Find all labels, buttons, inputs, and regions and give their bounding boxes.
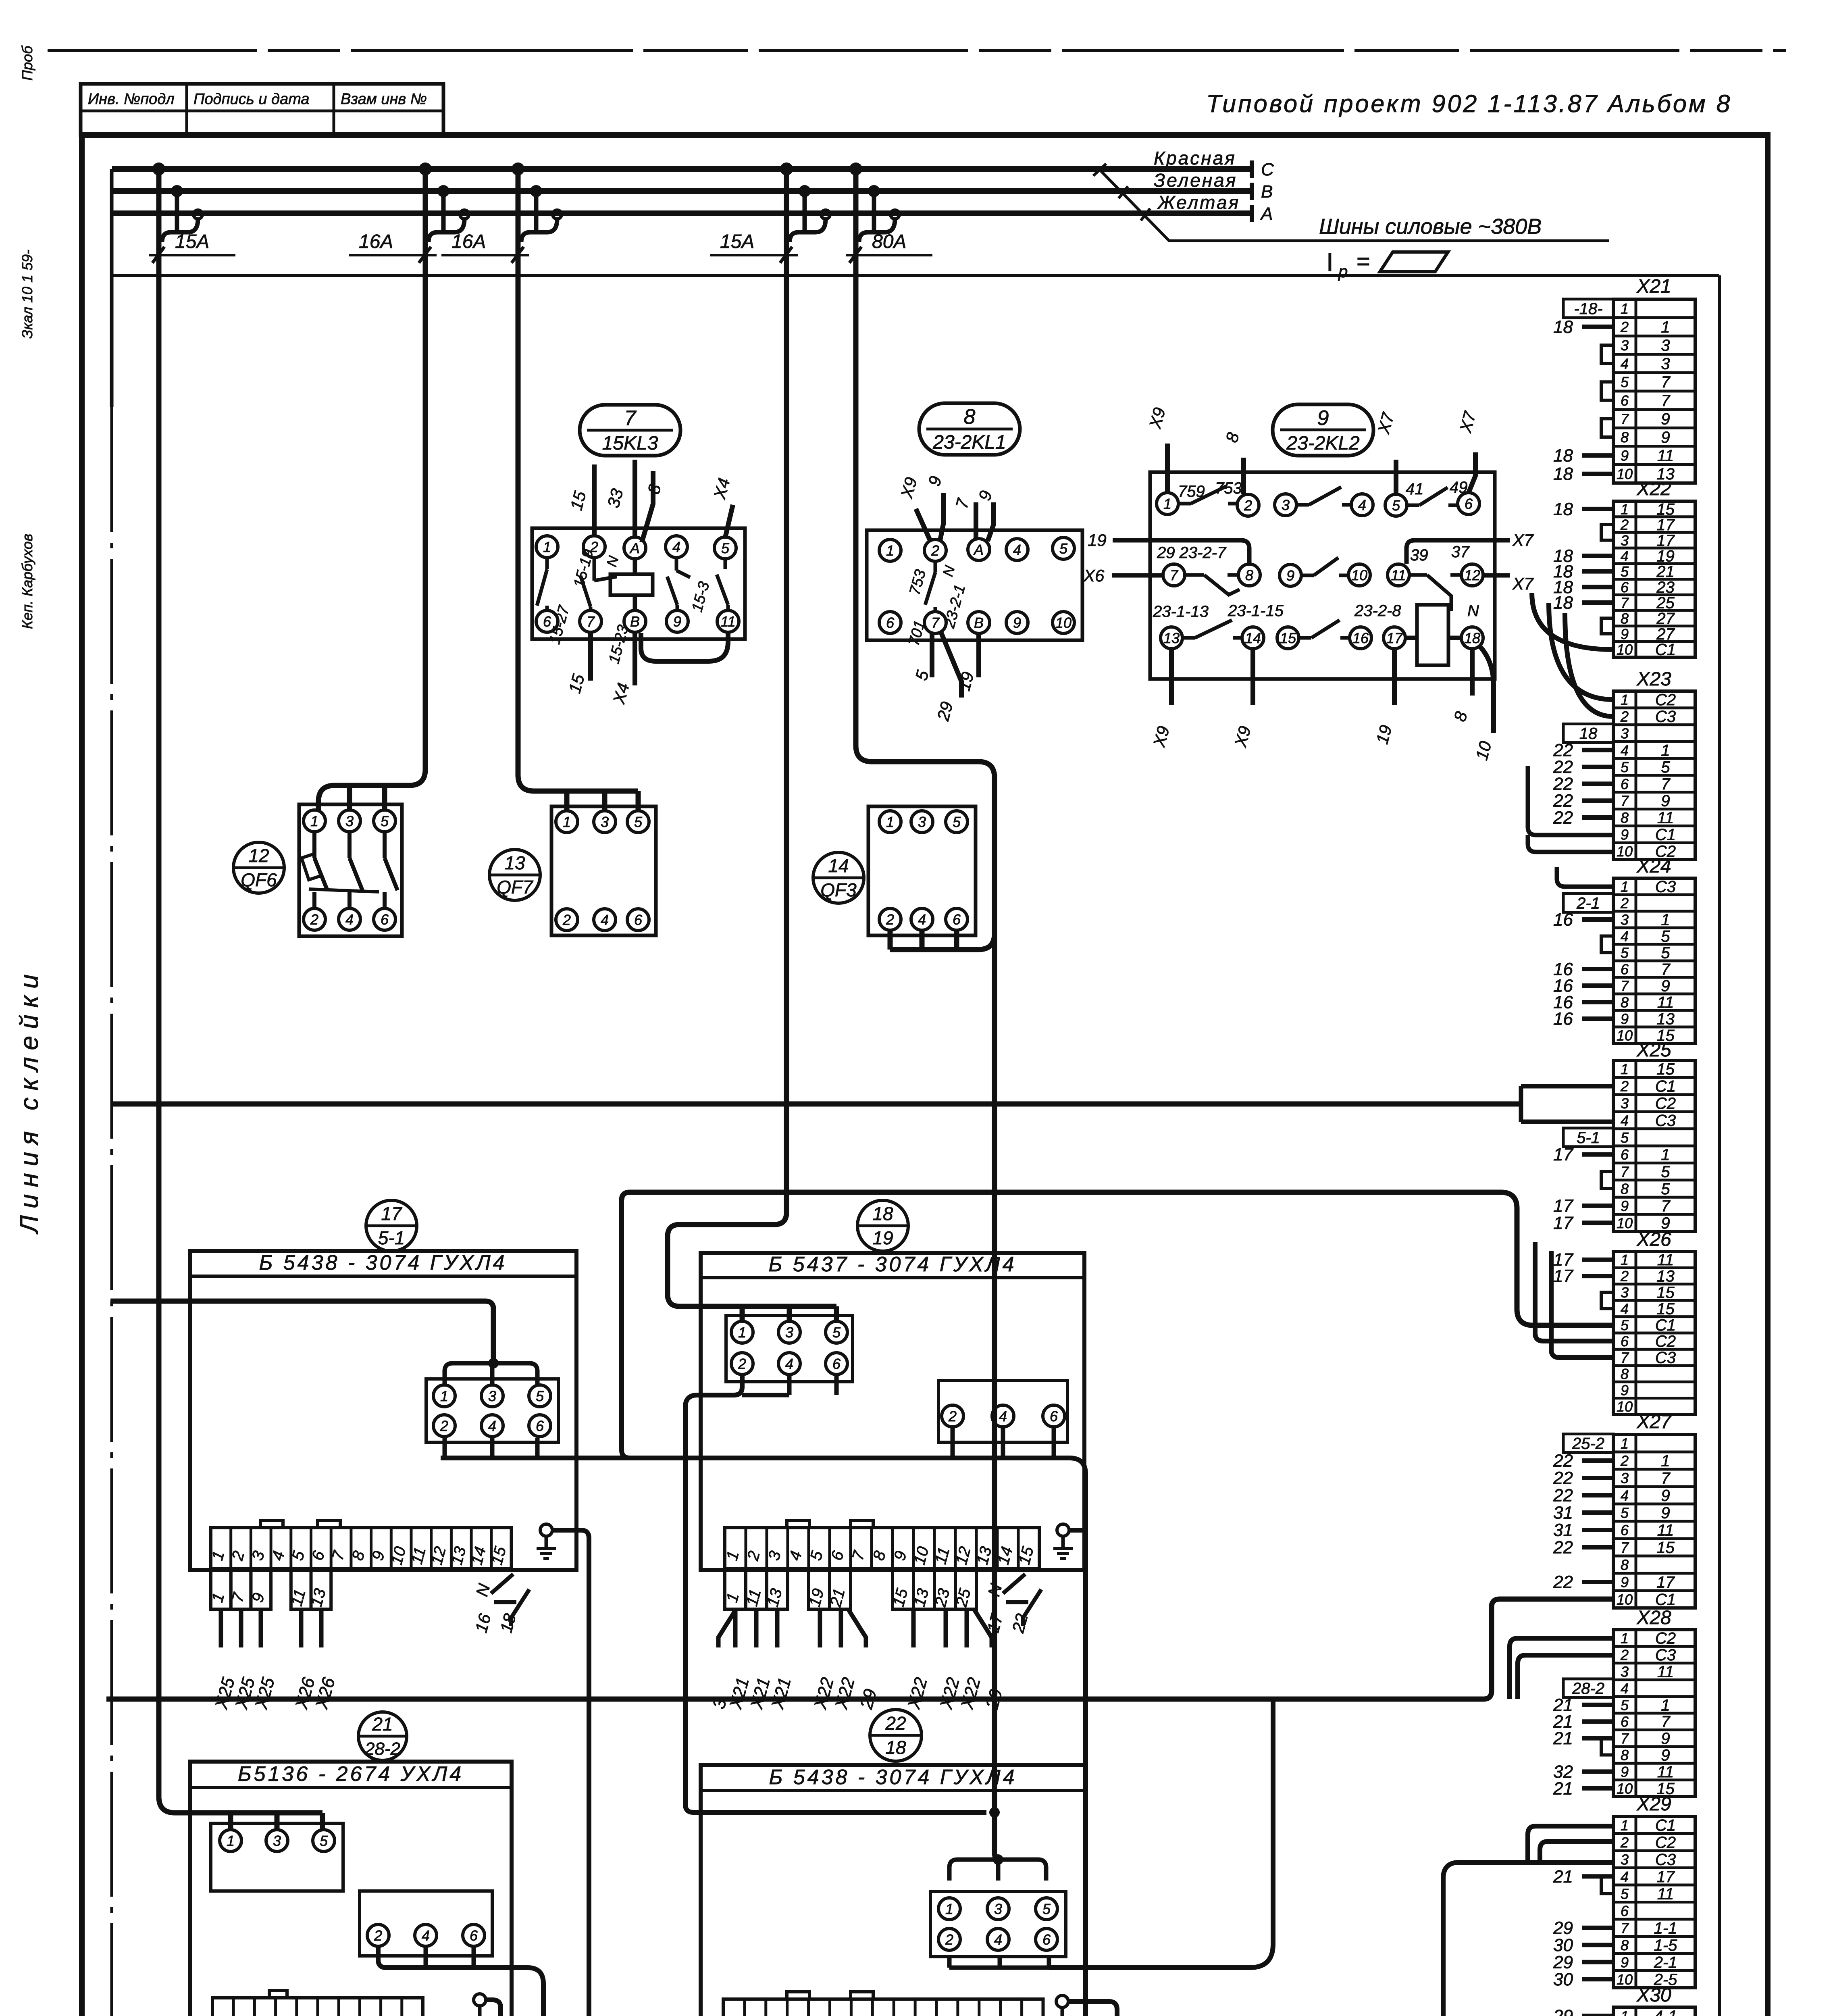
svg-text:9: 9: [1621, 826, 1629, 843]
svg-text:21: 21: [1553, 1867, 1573, 1887]
circuit breaker QF6 pin 6: [374, 908, 395, 930]
svg-text:2: 2: [1620, 516, 1629, 533]
circuit breaker QF6 pin 3: [339, 810, 360, 832]
svg-text:5: 5: [381, 813, 389, 829]
unit A17 designator 17/5-1: [366, 1200, 417, 1251]
svg-text:6: 6: [1621, 961, 1629, 978]
svg-text:16А: 16А: [451, 231, 486, 252]
svg-text:8: 8: [964, 405, 976, 429]
terminal strip Х29 stub 29 pin 9: [1553, 1952, 1613, 1972]
svg-text:4-1: 4-1: [1654, 2008, 1677, 2016]
svg-text:4: 4: [1621, 742, 1629, 758]
relay K7 wire 11 to B: [641, 632, 728, 661]
wire X24 C3 hook: [1557, 867, 1613, 887]
svg-text:-18-: -18-: [1574, 300, 1602, 318]
svg-text:10: 10: [1617, 1971, 1633, 1988]
terminal strip Х24 boxed label 2-1: [1563, 894, 1613, 912]
relay K8 pin 2: [924, 539, 946, 561]
relay K7 pin A: [624, 537, 646, 559]
svg-text:Х29: Х29: [1636, 1793, 1671, 1815]
unit A21 connector 2: [360, 1891, 492, 1956]
svg-text:8: 8: [1621, 994, 1629, 1011]
label Шины силовые 380В: [1319, 215, 1542, 239]
svg-text:15: 15: [1656, 500, 1675, 518]
relay K9 contact 11-12: [1409, 575, 1461, 611]
relay K7 pin B: [624, 610, 646, 632]
circuit breaker QF6 pin 1: [304, 810, 325, 832]
svg-text:11: 11: [1657, 447, 1674, 465]
svg-text:11: 11: [1657, 994, 1674, 1012]
stamp table Инв/Подпись/Взам: [81, 84, 443, 135]
unit A22 terminal strip: [722, 1999, 1043, 2016]
svg-text:4: 4: [672, 539, 680, 555]
svg-text:3: 3: [1621, 1664, 1629, 1680]
relay K7 pin 2: [583, 536, 605, 558]
svg-text:4: 4: [422, 1927, 430, 1944]
ground A18: [1053, 1524, 1073, 1558]
svg-text:11: 11: [720, 613, 735, 630]
terminal strip Х23 stub 22 pin 6: [1553, 774, 1613, 794]
relay K8 wire X9 up: [897, 475, 930, 541]
circuit breaker QF3 pin 1: [879, 811, 901, 833]
svg-text:3: 3: [1621, 337, 1629, 354]
wire drop 15A to QF6 feed: [318, 169, 425, 811]
svg-text:17: 17: [1656, 1574, 1675, 1591]
terminal strip Х27 label: [1636, 1411, 1672, 1433]
svg-text:5: 5: [1621, 374, 1629, 390]
svg-text:13: 13: [504, 852, 525, 873]
circuit breaker QF7 pin 5: [627, 811, 649, 833]
svg-text:12: 12: [248, 845, 269, 866]
svg-text:8: 8: [1621, 810, 1629, 826]
wire drop 16A to QF7 feed: [518, 169, 638, 811]
unit A18 designator 18/19: [857, 1200, 908, 1251]
unit A18 terminal strip: [723, 1528, 1039, 1568]
svg-text:10: 10: [1617, 641, 1633, 658]
svg-text:1: 1: [1621, 1630, 1629, 1647]
svg-text:18: 18: [1579, 725, 1598, 743]
svg-text:4: 4: [1621, 1680, 1629, 1697]
relay K7 wire 8 up: [642, 471, 665, 542]
circuit breaker QF6 body: [299, 804, 402, 936]
svg-text:4: 4: [1621, 1868, 1629, 1885]
wire to X28 C2 C3: [1510, 1638, 1613, 1699]
relay K7 label 15-23: [605, 623, 632, 666]
terminal strip Х24 jumper 4-5: [1601, 936, 1613, 953]
bus C (Красная): [112, 160, 1274, 179]
terminal strip Х25 stub 17 pin 9: [1553, 1196, 1613, 1216]
relay K9 pin 10: [1348, 564, 1370, 586]
unit A18 strip sub-cell 1: [723, 1568, 746, 1609]
wire bus C1 row full width: [110, 1102, 1521, 1107]
relay K9 pin 2: [1237, 494, 1259, 516]
unit A18 strip sub-cell 13: [911, 1568, 934, 1609]
svg-text:6: 6: [634, 912, 643, 928]
terminal strip Х29 table: [1613, 1816, 1695, 1989]
svg-text:19: 19: [1088, 531, 1107, 550]
relay K9 wire X7 pin5 up: [1374, 410, 1398, 494]
unit A18 strip jumper 4: [787, 1520, 809, 1528]
svg-text:16: 16: [1352, 630, 1369, 646]
relay K9 pin 6: [1458, 493, 1479, 514]
svg-text:1: 1: [563, 814, 571, 830]
svg-text:7: 7: [1170, 567, 1179, 583]
relay K9 contact 1-2: [1178, 486, 1237, 504]
relay K9 contact 7-8: [1185, 575, 1240, 595]
svg-text:=: =: [1357, 248, 1370, 275]
svg-text:25: 25: [1656, 594, 1675, 612]
svg-text:10: 10: [1617, 1780, 1633, 1797]
svg-text:17: 17: [1553, 1266, 1573, 1286]
svg-text:6: 6: [1621, 1522, 1629, 1539]
margin note Кеп: [19, 534, 35, 629]
margin note Проб: [19, 45, 35, 81]
circuit breaker QF6 pin 5: [374, 810, 395, 832]
svg-text:Зкал 10 1 59-: Зкал 10 1 59-: [19, 250, 35, 339]
terminal strip Х26 jumper 3-4: [1601, 1292, 1613, 1308]
svg-text:2: 2: [1620, 708, 1629, 725]
svg-text:1: 1: [1621, 1817, 1629, 1833]
unit A17 N wires: [472, 1574, 529, 1626]
svg-text:5: 5: [1661, 1180, 1670, 1198]
svg-text:2: 2: [931, 542, 939, 559]
svg-text:15А: 15А: [175, 231, 209, 252]
svg-text:1: 1: [1621, 1061, 1629, 1077]
svg-text:13: 13: [1656, 1010, 1675, 1028]
unit A17 strip jumper 6-7: [318, 1520, 340, 1528]
svg-text:4: 4: [1621, 548, 1629, 564]
unit A17 wire to Х25: [251, 1609, 279, 1712]
relay K9 label 753: [1215, 479, 1242, 497]
relay K7 pin 11: [717, 610, 739, 632]
svg-text:1: 1: [227, 1833, 235, 1849]
svg-text:1: 1: [1661, 1452, 1670, 1470]
unit A17 connector output bundle: [445, 1438, 537, 1458]
unit A18 title Б 5437 - 3074 ГУХЛ4: [701, 1253, 1084, 1278]
relay K9 pin 13: [1161, 627, 1182, 649]
terminal strip Х26 stub 17 pin 1: [1553, 1250, 1613, 1270]
svg-text:5: 5: [1621, 1505, 1629, 1521]
svg-text:Б 5438 - 3074 ГУХЛ4: Б 5438 - 3074 ГУХЛ4: [769, 1766, 1017, 1789]
svg-text:27: 27: [1656, 610, 1675, 627]
svg-text:2: 2: [440, 1418, 448, 1434]
relay K9 pin 18: [1461, 627, 1483, 649]
svg-text:9: 9: [1661, 1504, 1670, 1522]
relay K8 wire 29 down diagonal: [933, 633, 961, 723]
wire to X26 C2: [1535, 1242, 1613, 1341]
svg-text:17: 17: [1656, 516, 1675, 534]
svg-text:6: 6: [953, 911, 961, 928]
relay K8 pin 1: [879, 539, 901, 561]
fold line линия склейки: [110, 169, 114, 2016]
terminal strip Х27 stub 22 pin 4: [1553, 1486, 1613, 1506]
unit A17 strip sub-cell 11: [287, 1568, 311, 1609]
svg-text:5: 5: [953, 814, 961, 830]
fold label Линия склейки: [15, 967, 44, 1235]
svg-text:1: 1: [1661, 318, 1670, 336]
relay K9 label 39: [1410, 546, 1428, 564]
svg-text:Взам инв №: Взам инв №: [341, 91, 427, 108]
terminal strip Х22 stub 18 pin 1: [1553, 499, 1613, 519]
svg-text:10: 10: [1617, 1027, 1633, 1044]
svg-text:5: 5: [1621, 1697, 1629, 1713]
svg-text:9: 9: [1661, 410, 1670, 428]
svg-text:8: 8: [1621, 1366, 1629, 1382]
svg-text:22: 22: [1553, 808, 1573, 828]
svg-text:С2: С2: [1655, 1333, 1676, 1350]
terminal strip Х30 label: [1636, 1985, 1671, 2006]
terminal strip Х27 table: [1613, 1435, 1695, 1609]
unit A18 wire to 29: [848, 1609, 880, 1712]
relay K9 pin 5: [1385, 494, 1407, 516]
svg-text:Красная: Красная: [1154, 148, 1236, 169]
wire feed unit A22 from QF3: [989, 778, 1000, 1860]
svg-text:5: 5: [1661, 944, 1670, 962]
relay K9 label 29 23-2-7: [1157, 544, 1227, 562]
svg-text:6: 6: [1621, 1146, 1629, 1163]
svg-text:7: 7: [1661, 775, 1671, 793]
terminal strip Х21 table: [1613, 299, 1695, 483]
terminal strip Х21 stub 18 pin 9: [1553, 446, 1613, 466]
svg-text:С2: С2: [1655, 1630, 1676, 1647]
svg-text:5: 5: [1621, 759, 1629, 775]
svg-text:С1: С1: [1655, 826, 1676, 843]
circuit breaker QF3 pin 3: [911, 811, 933, 833]
svg-text:18: 18: [1553, 499, 1573, 519]
terminal strip Х29 stub 30 pin 10: [1553, 1970, 1613, 1989]
svg-text:3: 3: [1282, 497, 1290, 513]
svg-text:9: 9: [673, 613, 681, 630]
svg-text:7: 7: [1621, 1164, 1629, 1180]
unit A17 wire to Х26: [312, 1609, 339, 1712]
terminal strip Х27 stub 22 pin 3: [1553, 1468, 1613, 1488]
svg-text:3: 3: [785, 1324, 793, 1341]
unit A21 terminal strip: [211, 1998, 423, 2016]
relay K9 label 23-1-15: [1228, 602, 1284, 620]
wire feed unit A17: [110, 1301, 493, 1363]
relay K7 wire 33 up: [603, 460, 635, 537]
unit A18 wire to Х21: [768, 1609, 795, 1712]
svg-text:11: 11: [1657, 809, 1674, 827]
svg-text:6: 6: [1621, 579, 1629, 596]
svg-text:7: 7: [1621, 978, 1629, 994]
unit A18 connector 2 output bundle: [953, 1427, 1054, 1458]
svg-text:2: 2: [1620, 1078, 1629, 1095]
svg-text:С1: С1: [1655, 1078, 1676, 1095]
svg-text:5: 5: [1621, 945, 1629, 961]
terminal strip Х26 stub 17 pin 2: [1553, 1266, 1613, 1286]
svg-text:С3: С3: [1655, 1646, 1676, 1664]
terminal strip Х22 table: [1613, 500, 1695, 658]
relay K8 pin 5: [1053, 537, 1074, 559]
svg-text:15KL3: 15KL3: [602, 433, 658, 454]
svg-text:С1: С1: [1655, 1316, 1676, 1334]
relay K9 label 23-1-13: [1153, 603, 1209, 621]
relay K9 coil: [1405, 605, 1461, 665]
svg-text:Линия склейки: Линия склейки: [15, 967, 44, 1235]
svg-text:9: 9: [1661, 1747, 1670, 1764]
bus B (Зеленая): [112, 182, 1273, 202]
relay K9 label N: [1467, 602, 1479, 620]
relay K7 wire X4 up right: [710, 476, 734, 537]
svg-text:Б 5437 - 3074 ГУХЛ4: Б 5437 - 3074 ГУХЛ4: [768, 1253, 1016, 1276]
svg-text:6: 6: [1050, 1408, 1058, 1425]
terminal strip Х22 stub 18 pin 4: [1553, 546, 1613, 566]
svg-text:11: 11: [1657, 1251, 1674, 1269]
svg-text:7: 7: [931, 614, 940, 631]
svg-text:80А: 80А: [872, 231, 906, 252]
svg-text:25-2: 25-2: [1572, 1435, 1604, 1453]
relay K7 contact 5-11: [717, 559, 728, 610]
svg-text:Х23: Х23: [1636, 669, 1671, 690]
circuit breaker QF3 pin 4: [911, 908, 933, 930]
svg-text:9: 9: [1621, 1764, 1629, 1780]
svg-text:4: 4: [1621, 928, 1629, 945]
relay K8 wire 9b up: [975, 489, 995, 541]
svg-text:21: 21: [1553, 1779, 1573, 1798]
relay K9 contact 13-14: [1182, 620, 1242, 638]
relay K9 pin 9: [1280, 564, 1301, 586]
relay K9 contact 9-10: [1301, 558, 1348, 575]
fuse tap 15А at x1951: [710, 162, 830, 263]
svg-text:Проб: Проб: [19, 45, 35, 81]
svg-text:С3: С3: [1655, 1851, 1676, 1868]
relay K8 pin B: [968, 612, 990, 633]
relay K9 label 37: [1451, 543, 1470, 561]
svg-text:5: 5: [1621, 1317, 1629, 1333]
svg-text:6: 6: [1042, 1931, 1051, 1948]
unit A17 strip sub-cell 13: [308, 1568, 331, 1609]
relay K9 contact 3-4: [1296, 487, 1351, 505]
svg-text:3: 3: [1621, 1284, 1629, 1301]
svg-text:С1: С1: [1655, 1816, 1676, 1834]
svg-text:14: 14: [1245, 630, 1261, 646]
svg-text:30: 30: [1553, 1970, 1573, 1989]
svg-text:3: 3: [488, 1388, 496, 1404]
relay K9 wire 8 pin18 down: [1450, 649, 1472, 723]
terminal strip Х30 table: [1613, 2007, 1695, 2016]
svg-text:2: 2: [1620, 895, 1629, 912]
terminal strip Х28 stub 32 pin 9: [1553, 1762, 1613, 1782]
terminal strip Х28 stub 21 pin 7: [1553, 1729, 1613, 1748]
svg-text:23-1-15: 23-1-15: [1228, 602, 1284, 620]
terminal strip Х21 jumper 3-4: [1601, 345, 1613, 364]
svg-text:5: 5: [1042, 1901, 1051, 1917]
svg-text:17: 17: [1656, 1868, 1675, 1886]
svg-text:3: 3: [345, 813, 354, 829]
svg-text:9: 9: [1621, 1574, 1629, 1591]
svg-text:3: 3: [1661, 337, 1670, 354]
terminal strip Х25 label: [1636, 1039, 1671, 1061]
terminal strip Х21 stub 18 pin 2: [1553, 317, 1613, 337]
svg-text:3: 3: [601, 814, 609, 830]
relay K8 body: [867, 530, 1082, 640]
relay K9 label 49: [1450, 479, 1468, 496]
svg-text:17: 17: [1656, 532, 1675, 550]
terminal strip Х22 stub 18 pin 7: [1553, 593, 1613, 613]
unit A18 connector 2: [938, 1381, 1067, 1442]
wire drop 16A to unit 21: [159, 169, 322, 1830]
relay K9 wire 19 pin7 left: [1088, 531, 1249, 564]
svg-text:9: 9: [1661, 792, 1670, 810]
relay K7 wire 15 down: [565, 632, 591, 695]
relay K7 contact 2-7: [580, 558, 617, 610]
svg-text:Инв. №подл: Инв. №подл: [88, 91, 175, 108]
svg-text:4: 4: [1621, 356, 1629, 372]
svg-text:2: 2: [1620, 1453, 1629, 1469]
svg-text:18: 18: [1464, 630, 1480, 646]
terminal strip Х21 stub 18 pin 10: [1553, 464, 1613, 484]
svg-text:21: 21: [1656, 563, 1675, 581]
unit A18 connector 1 output bundle: [685, 1375, 986, 1812]
wire X29 C1 hook: [1528, 1826, 1613, 1862]
svg-text:Х7: Х7: [1512, 531, 1534, 550]
bus leader line: [1093, 164, 1609, 241]
circuit breaker QF6 designator 12/QF6: [233, 842, 284, 893]
svg-text:Типовой проект 902 1-113.8: Типовой проект 902 1-113.87 Альбом 8: [1206, 90, 1732, 117]
terminal strip Х24 stub 16 pin 6: [1553, 960, 1613, 979]
svg-text:4: 4: [1621, 1300, 1629, 1317]
terminal strip Х25 table: [1613, 1060, 1695, 1232]
terminal strip Х29 label: [1636, 1793, 1671, 1815]
svg-text:15: 15: [1656, 1284, 1675, 1302]
svg-text:2: 2: [1244, 497, 1252, 514]
svg-text:4: 4: [999, 1408, 1007, 1425]
unit A22 body: [701, 1765, 1085, 2016]
terminal strip Х30 stub 29 pin 1: [1553, 2006, 1613, 2016]
terminal strip Х28 stub 21 pin 6: [1553, 1712, 1613, 1732]
svg-text:2: 2: [374, 1927, 382, 1944]
unit A22 connector output bundle: [949, 1699, 1273, 1968]
terminal strip Х28 table: [1613, 1630, 1695, 1798]
label Ip =: [1326, 248, 1370, 281]
relay K9 wire X9 pin14 down: [1231, 649, 1255, 749]
svg-text:3: 3: [1621, 912, 1629, 928]
relay K9 wire X7 pin12 right: [1483, 574, 1534, 593]
svg-text:7: 7: [1621, 1920, 1629, 1936]
terminal strip Х29 stub 21 pin 4: [1553, 1867, 1613, 1887]
svg-text:Х26: Х26: [1636, 1229, 1671, 1250]
svg-text:759: 759: [1178, 483, 1205, 500]
ground A22: [1053, 1995, 1072, 2016]
circuit breaker QF7 designator 13/QF7: [489, 850, 540, 900]
svg-text:9: 9: [1621, 626, 1629, 642]
terminal column box: [1517, 275, 1719, 2016]
svg-text:1-1: 1-1: [1654, 1919, 1677, 1937]
svg-text:Б 5438 - 3074 ГУХЛ4: Б 5438 - 3074 ГУХЛ4: [259, 1251, 507, 1275]
terminal strip Х27 boxed label 25-2: [1563, 1434, 1613, 1453]
svg-text:9: 9: [1661, 429, 1670, 446]
svg-text:А: А: [973, 541, 984, 558]
relay K8 designator 8/23-2KL1: [919, 403, 1020, 455]
terminal strip Х25 boxed label 5-1: [1563, 1128, 1613, 1147]
bus label Зеленая: [1154, 170, 1237, 191]
relay K7 pin 9: [666, 610, 688, 632]
svg-text:7: 7: [1661, 1470, 1671, 1487]
relay K9 wire X7 pin6 up: [1456, 409, 1479, 493]
svg-text:3: 3: [1621, 1095, 1629, 1112]
relay K9 label 759: [1178, 483, 1205, 500]
fuse tap 15А at x394: [149, 162, 235, 263]
svg-text:А: А: [1260, 204, 1273, 224]
unit A17 strip jumper 3-4: [260, 1520, 283, 1528]
unit A18 strip sub-cell 13: [764, 1568, 788, 1609]
unit A18 wire to Х22: [904, 1609, 931, 1712]
relay K9 pin 16: [1350, 627, 1371, 649]
svg-text:Х28: Х28: [1636, 1607, 1671, 1629]
unit A18 strip jumper 7: [851, 1520, 873, 1528]
svg-text:9: 9: [1621, 1198, 1629, 1214]
